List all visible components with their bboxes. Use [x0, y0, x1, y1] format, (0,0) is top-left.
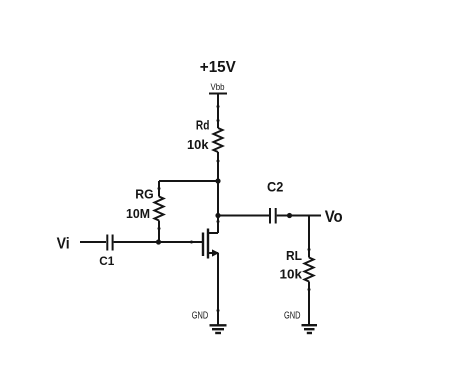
- svg-text:+15V: +15V: [200, 59, 236, 76]
- node junction dot drain/output: [215, 213, 220, 218]
- wire Vi input to C1: [80, 241, 106, 243]
- resistor RL: [305, 258, 314, 282]
- wire output drain to C2: [218, 215, 269, 217]
- pin nub RG top: [158, 187, 161, 190]
- wire RG bottom lead: [158, 221, 160, 243]
- wire C2 to Vo: [277, 215, 321, 217]
- pin nub RG bottom: [158, 227, 161, 230]
- pin nub gate: [190, 241, 193, 244]
- svg-text:10k: 10k: [280, 268, 303, 282]
- svg-text:Vo: Vo: [325, 207, 343, 226]
- transistor Q1 NMOS gate bar: [202, 233, 204, 257]
- pin nub drain: [217, 220, 220, 223]
- pin nub RL top: [308, 248, 311, 251]
- wire RG top lead: [158, 181, 160, 197]
- pin nub Rd bottom: [217, 160, 220, 163]
- wire drain lead: [208, 232, 218, 234]
- svg-text:Vbb: Vbb: [211, 82, 225, 92]
- pin nub rail: [217, 105, 220, 108]
- ground GND right: [302, 324, 318, 326]
- svg-text:RG: RG: [135, 187, 153, 201]
- wire source down to ground: [217, 253, 219, 325]
- svg-text:C1: C1: [99, 254, 114, 268]
- transistor Q1 NMOS channel bar: [207, 229, 209, 259]
- wire C1 to gate: [114, 241, 202, 243]
- pin nub Rd top: [217, 119, 220, 122]
- node junction dot gate/RG: [156, 239, 161, 244]
- pin nub source wire: [217, 309, 220, 312]
- svg-text:Vi: Vi: [57, 235, 70, 252]
- node junction dot output: [287, 213, 292, 218]
- svg-text:GND: GND: [284, 310, 301, 321]
- node Vbb supply rail bar: [209, 93, 227, 95]
- svg-text:10M: 10M: [126, 207, 150, 221]
- wire Vbb rail to Rd top: [217, 94, 219, 129]
- wire RL bottom to ground: [308, 282, 310, 325]
- resistor Rd: [214, 128, 223, 152]
- wire RG top horizontal: [159, 180, 218, 182]
- svg-text:10k: 10k: [187, 138, 209, 152]
- wire Rd bottom down main drain line: [217, 152, 219, 233]
- capacitor C1: [106, 235, 108, 251]
- svg-text:C2: C2: [267, 179, 283, 194]
- wire RL top lead: [308, 216, 310, 258]
- node junction dot Rd/RG: [215, 178, 220, 183]
- resistor RG: [155, 197, 164, 221]
- svg-text:Rd: Rd: [196, 118, 210, 132]
- ground GND middle: [210, 324, 227, 326]
- wire source lead: [208, 252, 218, 254]
- svg-text:GND: GND: [192, 310, 209, 321]
- transistor Q1 source arrow: [212, 249, 219, 256]
- svg-text:RL: RL: [286, 249, 302, 263]
- capacitor C2: [269, 208, 271, 224]
- pin nub RL bottom: [308, 288, 311, 291]
